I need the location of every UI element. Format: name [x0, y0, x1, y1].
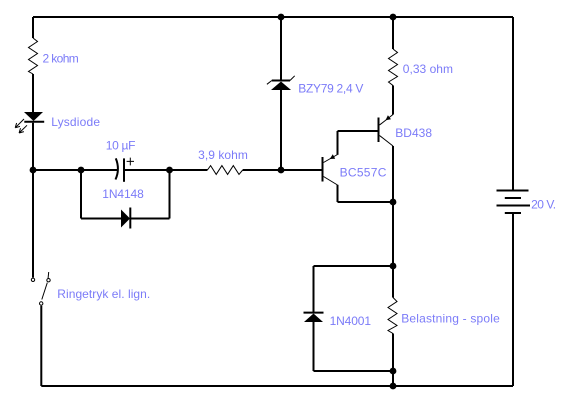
node cap loop right — [166, 167, 173, 174]
node collectors join — [390, 199, 397, 206]
svg-text:3,9 kohm: 3,9 kohm — [198, 148, 248, 162]
switch Ringetryk — [31, 272, 50, 305]
wire 3,9k to BC557C base — [243, 169, 322, 171]
node bottom rail — [390, 383, 397, 390]
wire load to bottom rail — [392, 334, 394, 387]
wire top rail to 0,33 — [392, 17, 394, 49]
wire LED to mid node — [32, 123, 34, 170]
svg-text:10 µF: 10 µF — [106, 139, 136, 153]
svg-text:20 V.: 20 V. — [531, 198, 556, 212]
wire top rail to zener — [280, 17, 282, 81]
wire 1N4148 loop bottom-left — [81, 218, 121, 220]
svg-text:BD438: BD438 — [395, 126, 432, 140]
node zener base junction — [278, 167, 285, 174]
diode 1N4001 — [304, 313, 324, 322]
wire BC557C emitter up — [337, 131, 339, 155]
wire BC557C emitter to BD438 base — [338, 130, 378, 132]
node top rail 0,33 — [390, 14, 397, 21]
battery 20 V — [497, 191, 531, 214]
transistor BC557C — [323, 154, 338, 185]
wire top rail — [33, 16, 513, 18]
node cap loop left — [78, 167, 85, 174]
wire bottom rail — [41, 385, 513, 387]
wire left drop to R1 — [32, 17, 34, 38]
svg-text:0,33 ohm: 0,33 ohm — [403, 62, 453, 76]
wire 1N4148 loop right — [169, 170, 171, 219]
wire BC557C collector down — [337, 185, 339, 202]
wire 0,33 to BD438 emitter — [392, 86, 394, 115]
wire BD438 collector down — [392, 146, 394, 298]
wire switch to bottom rail — [40, 306, 42, 386]
LED Lysdiode — [15, 112, 44, 133]
resistor 2 kohm — [29, 38, 38, 74]
wire 1N4148 loop left — [80, 170, 82, 219]
wire cap to 3,9k — [124, 169, 207, 171]
svg-text:Lysdiode: Lysdiode — [51, 115, 100, 129]
capacitor 10 µF — [116, 158, 135, 182]
wire 1N4148 loop bottom-right — [130, 218, 169, 220]
svg-text:BC557C: BC557C — [340, 166, 387, 180]
resistor 3,9 kohm — [207, 166, 242, 175]
resistor 0,33 ohm — [389, 49, 398, 86]
wire 1N4001 loop top — [314, 265, 394, 267]
node load top — [390, 263, 397, 270]
resistor Belastning - spole — [388, 298, 397, 334]
wire right side (battery bottom lead) — [512, 213, 514, 386]
node mid-left — [30, 167, 37, 174]
transistor BD438 — [379, 115, 394, 147]
svg-text:Belastning - spole: Belastning - spole — [401, 312, 500, 326]
node top rail zener — [278, 14, 285, 21]
wire 1N4001 loop left lower — [313, 322, 315, 371]
node load bottom — [390, 368, 397, 375]
svg-text:1N4001: 1N4001 — [330, 314, 372, 328]
svg-text:2 kohm: 2 kohm — [43, 52, 79, 66]
wire LED node to switch — [32, 170, 34, 278]
wire 1N4001 loop left upper — [313, 266, 315, 313]
svg-text:BZY79 2,4 V: BZY79 2,4 V — [298, 81, 363, 95]
diode 1N4148 — [121, 208, 130, 229]
zener diode BZY79 2,4 V — [267, 76, 295, 90]
wire 1N4001 loop bottom — [314, 370, 394, 372]
wire BC557C collector to BD438 collector — [338, 201, 394, 203]
svg-text:1N4148: 1N4148 — [102, 187, 144, 201]
wire mid line left — [33, 169, 118, 171]
wire right side (battery top lead) — [512, 17, 514, 190]
wire R1 to LED — [32, 74, 34, 112]
wire zener to mid node — [280, 90, 282, 170]
svg-text:Ringetryk el. lign.: Ringetryk el. lign. — [57, 287, 150, 301]
